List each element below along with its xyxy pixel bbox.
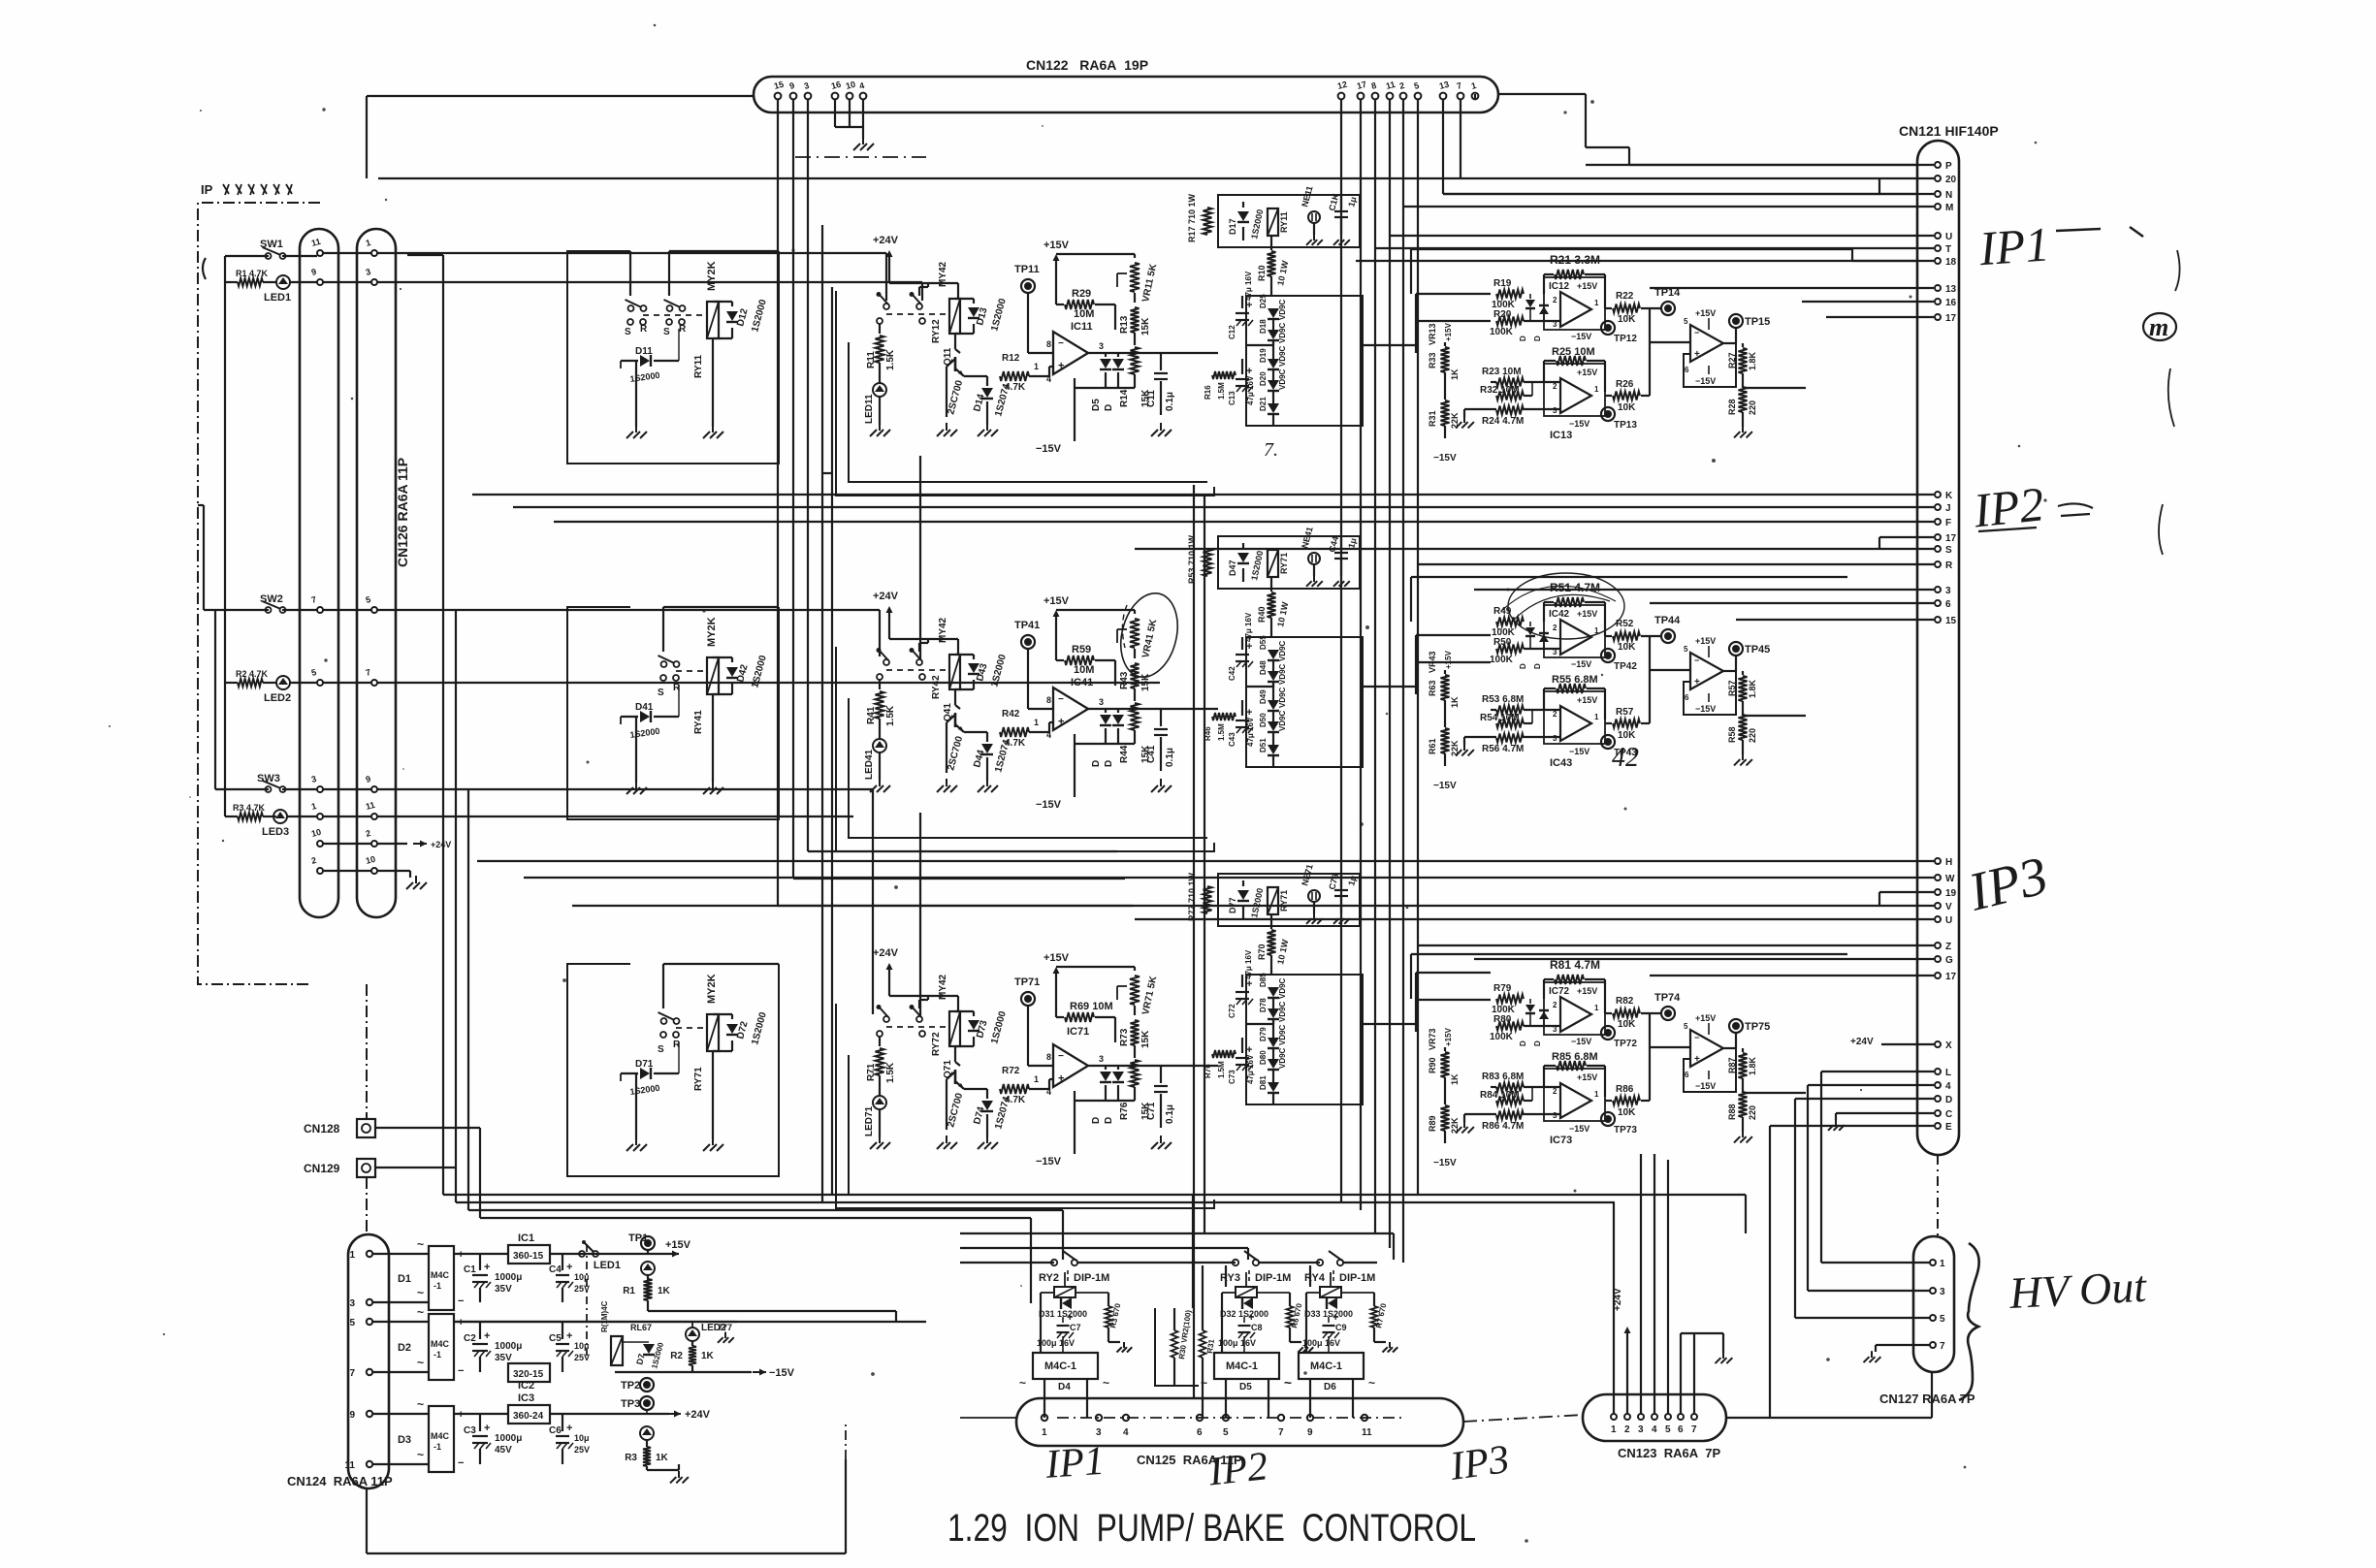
wire CN12x dashdot [366,984,368,1234]
wire E down [1769,1126,1771,1418]
svg-text:25V: 25V [574,1445,590,1455]
diode D13 ch1 [955,297,1009,334]
svg-text:18: 18 [1945,257,1957,268]
svg-text:R33: R33 [1428,352,1437,368]
svg-text:S: S [663,327,670,337]
ground LED ch3 [870,1136,890,1149]
pin 17 CN121 [1879,533,1957,544]
svg-text:R53 710 1W: R53 710 1W [1187,534,1197,584]
svg-text:−: − [1694,328,1699,337]
svg-text:+: + [566,1262,572,1273]
svg-text:Q71: Q71 [943,1060,953,1078]
capacitor C9 [1302,1312,1347,1353]
wire long v1242 [1204,496,1205,1233]
wire CN126 row [323,870,407,872]
svg-text:T: T [1945,244,1951,255]
wire bm h1232 [443,1195,1746,1233]
svg-text:M4C-1: M4C-1 [1044,1360,1076,1372]
svg-text:+15V: +15V [1444,1027,1453,1046]
wire filter out ch1 [1363,294,1491,353]
net -15V ch2 [1036,797,1075,811]
pin N CN121 [1443,190,1952,201]
svg-text:D49: D49 [1259,689,1268,704]
resistor R29 ch1 [1056,288,1115,330]
svg-text:1.5K: 1.5K [885,1062,896,1083]
svg-text:R1: R1 [623,1286,635,1296]
svg-text:RY12: RY12 [931,319,942,343]
wire contacts up ch3 [663,964,779,1008]
svg-text:CN123 RA6A 7P: CN123 RA6A 7P [1618,1446,1721,1460]
net +24V ch1 [873,235,958,299]
svg-text:~: ~ [1368,1376,1375,1390]
wire bus pin3 [807,99,809,851]
switch ps [579,1240,598,1257]
wire row1 to ch1 [407,253,886,301]
svg-text:D20: D20 [1259,371,1268,386]
svg-text:100K: 100K [1490,327,1514,337]
svg-text:+: + [1058,361,1064,372]
neon NE11 ch1 [1300,185,1320,235]
handwriting scribble IC42 [1501,573,1624,639]
diode D20 ch1 [1259,370,1279,391]
resistor R25 ch1 [1544,346,1605,392]
svg-text:D: D [1519,1040,1527,1046]
svg-text:VD9C: VD9C [1278,322,1287,343]
label RY12 ch1 [931,319,942,343]
resistor R71 ch3 [866,1037,896,1083]
net +15V 2nd ch3 [1695,1013,1716,1035]
resistor R88 ch3 [1727,1092,1757,1132]
svg-text:R23 10M: R23 10M [1482,367,1522,377]
wire long v848 [821,225,823,1202]
svg-text:R41: R41 [866,706,877,724]
svg-text:2: 2 [1553,1087,1557,1096]
svg-text:S: S [625,327,631,337]
pin U CN121 [1390,232,1952,242]
svg-text:D: D [1533,1040,1542,1046]
svg-text:C43: C43 [1228,732,1236,747]
wire mid vertical ch1 [1650,308,1690,396]
pin 3/9 CN126 [310,774,377,792]
resistor R6 670 [1287,1302,1304,1342]
filter box top ch3 [1218,874,1360,926]
connector CN122 RA6A 19P [754,77,1498,112]
transistor Q11 ch1 [943,334,965,417]
svg-text:+: + [484,1423,490,1434]
svg-text:R82: R82 [1616,996,1634,1007]
svg-text:R: R [1945,560,1953,571]
svg-text:M4C: M4C [431,1431,450,1441]
capacitor C44 ch2 [1327,535,1358,576]
wire CN123 out right [1726,1373,1932,1418]
svg-text:R21 3.3M: R21 3.3M [1550,253,1600,267]
wire fb 2nd ch1 [1684,343,1736,387]
svg-text:CN128: CN128 [304,1122,340,1136]
svg-text:1: 1 [1611,1424,1617,1435]
resistor R1 4.7K [225,269,276,286]
ground Q71 ch3 [937,1136,957,1149]
net +15V ch2 [1044,595,1070,660]
wire contacts up ch2 [663,607,779,652]
label CN121 [1899,123,1999,139]
diode D14 ch1 [964,376,1012,425]
svg-text:R89: R89 [1428,1115,1437,1132]
diode D25 ch1 [1259,294,1279,319]
wire relay box outline ch3 [567,964,779,1176]
capacitor C3 [464,1414,522,1464]
svg-text:~: ~ [417,1448,424,1461]
svg-text:10K: 10K [1618,1107,1636,1118]
LED1 [264,275,317,304]
wire CN124 loop [367,1422,846,1553]
relay RY4 contact [1314,1251,1343,1265]
wire CN127 p5 [1795,1099,1930,1318]
resistor R81 ch3 [1544,958,1605,1013]
testpoint TP15 ch1 [1723,314,1770,343]
svg-text:220: 220 [1748,1105,1757,1120]
connector CN128 [304,1119,480,1139]
wire out to pin ch3 [1649,993,1651,1013]
svg-text:1000μ: 1000μ [495,1433,522,1444]
diode D5 ch1 [1091,353,1111,411]
svg-text:VD9C: VD9C [1278,345,1287,367]
svg-text:−15V: −15V [1695,376,1716,386]
wire contacts up ch1 [630,251,779,296]
wire block top ch1 [1411,249,1917,294]
wire bus CN122 right 5 [1402,99,1404,1263]
handwriting 7 note [1264,439,1278,461]
ground Q41 ch2 [937,779,957,792]
svg-text:2: 2 [1553,624,1557,632]
regulator IC1 [508,1232,550,1264]
resistor R77 ch3 [1187,872,1212,921]
filter box2 ch3 [1246,975,1363,1104]
resistor R59 ch2 [1056,644,1115,686]
handwriting IP2 [1971,476,2093,537]
handwriting IP2 bottom [1205,1444,1269,1494]
svg-text:D25: D25 [1259,294,1268,308]
svg-text:CN122 RA6A 19P: CN122 RA6A 19P [1026,57,1148,73]
svg-text:0.1μ: 0.1μ [1165,1104,1175,1124]
testpoint TP3 [621,1396,654,1410]
ground LED ch1 [870,423,890,436]
svg-text:D: D [1091,760,1102,767]
pin 15 CN122 [773,80,785,100]
diode D5 ch2 [1091,709,1111,767]
svg-text:VD9C: VD9C [1278,687,1287,708]
svg-text:+: + [1694,677,1700,688]
svg-text:5: 5 [349,1318,355,1328]
svg-text:M4C: M4C [431,1270,450,1280]
pin 7 CN127 [1930,1341,1945,1352]
filter box2 ch2 [1246,637,1363,767]
svg-text:R70: R70 [1257,944,1267,960]
net +24V ch3 [873,947,958,1011]
pin 9 CN124 [349,1410,372,1421]
connector CN121 HIF140P [1917,141,1959,1155]
diode D47 ch2 [1228,543,1265,582]
svg-text:M4C-1: M4C-1 [1310,1360,1342,1372]
wire CN123 bracket [1681,1333,1723,1414]
diode D5 ch3 [1091,1066,1111,1124]
pin J CN121 [513,503,1951,514]
pin 10 CN122 [845,80,856,100]
pin 3 CN122 [803,80,811,99]
transistor Q41 ch2 [943,689,965,773]
svg-text:1: 1 [1034,718,1039,727]
capacitor C78 ch3 [1327,873,1358,913]
testpoint TP71 ch3 [1014,976,1053,1066]
wire bus CN122 right 2 [1360,99,1362,1210]
wire C ground [1835,1113,1837,1120]
svg-text:D48: D48 [1259,660,1268,675]
label MY2K ch1 [706,261,718,291]
svg-text:2: 2 [1553,382,1557,391]
testpoint TP14 ch1 [1654,287,1681,315]
pin 17 CN122 [1356,80,1367,100]
svg-text:R11: R11 [866,351,877,368]
svg-text:IP1: IP1 [1976,216,2051,275]
svg-text:1: 1 [1034,362,1039,371]
capacitor C8 [1218,1312,1263,1353]
svg-text:−15V: −15V [1433,453,1457,464]
wire CN126 row [323,609,407,611]
module M4C-1 RY3 [1201,1353,1291,1392]
varistor R30 VR2 [1155,1308,1199,1386]
relay RY71 ch3 [1268,887,1289,914]
wire out to pin ch2 [1649,616,1651,636]
svg-text:TP15: TP15 [1745,316,1770,328]
svg-text:IC71: IC71 [1067,1026,1089,1038]
svg-text:TP12: TP12 [1614,334,1637,344]
net -15V ps [615,1367,795,1379]
wire relay stem ch2 [636,685,713,783]
wire row6 to ch3 [407,816,853,817]
svg-text:4: 4 [1123,1427,1129,1438]
svg-text:+15V: +15V [1695,636,1716,646]
svg-text:3: 3 [1096,1427,1102,1438]
svg-text:+: + [1058,717,1064,728]
resistor R76 ch3 [1119,1045,1151,1120]
wire bus CN122 right 6 [1417,99,1419,1195]
diode D79 ch3 [1259,1020,1279,1048]
svg-text:TP11: TP11 [1014,264,1040,275]
transistor Q71 ch3 [943,1046,965,1130]
label IC12 ch1 [1549,281,1597,292]
wire bm h1272 [960,1233,1394,1260]
ground D44 ch2 [978,779,998,792]
svg-text:M: M [1945,203,1953,213]
resistor R42 ch2 [1000,709,1049,749]
svg-text:U: U [1945,915,1952,926]
svg-text:17: 17 [1945,313,1957,324]
ground Q11 ch1 [937,423,957,436]
svg-text:D5: D5 [1091,399,1102,411]
svg-text:7.: 7. [1264,439,1278,461]
testpoint TP2 [621,1378,654,1392]
svg-text:+: + [1694,1054,1700,1065]
wire ps row3 bot [373,1448,429,1464]
diode D78 ch3 [1259,998,1279,1019]
svg-text:−: − [1058,1051,1064,1062]
svg-text:42: 42 [1612,743,1639,773]
pin 11 CN124 [344,1460,372,1471]
resistor R76 ch3 [1204,1050,1236,1078]
svg-text:7: 7 [1278,1427,1284,1438]
svg-text:5: 5 [1940,1314,1945,1325]
svg-text:47μ 16V: 47μ 16V [1246,1054,1255,1084]
svg-text:+: + [1694,349,1700,360]
wire ps row3 rails [454,1413,508,1415]
svg-text:TP75: TP75 [1745,1021,1770,1033]
resistor R16 ch1 [1204,371,1236,400]
label RY4 DIP-1M [1304,1270,1375,1284]
resistor R55 ch2 [1544,674,1605,720]
svg-text:U: U [1945,232,1952,242]
svg-text:~: ~ [1285,1376,1292,1390]
svg-text:3: 3 [1099,1054,1104,1064]
svg-text:VD9C: VD9C [1278,663,1287,685]
op-amp IC73 tri ch3 [1553,1083,1599,1120]
wire ps row1 out [454,1253,679,1255]
LED LED71 ch3 [864,1075,886,1137]
resistor R73 ch3 [1119,1019,1151,1048]
op-amp 2nd stage ch1 [1684,317,1723,374]
svg-text:~: ~ [1103,1376,1109,1390]
resistor R86 ch3 [1605,1084,1650,1118]
svg-text:X: X [1945,1040,1952,1051]
resistor R87 ch3 [1727,1048,1757,1093]
handwriting 42 [1612,743,1639,773]
svg-text:6: 6 [1945,599,1951,610]
pin 1 CN122 [1470,80,1478,99]
label MY42 ch1 [938,261,948,287]
svg-text:0.1μ: 0.1μ [1165,748,1175,767]
diode D72 ch3 [713,1010,769,1051]
svg-text:1: 1 [1042,1427,1047,1438]
svg-text:IC73: IC73 [1550,1135,1572,1146]
pin 5 CN124 [349,1318,372,1328]
label CN126 RA6A 11P [395,458,410,567]
resistor R12 ch1 [1000,353,1049,393]
svg-text:1000μ: 1000μ [495,1341,522,1352]
wire gnd row [407,871,410,878]
svg-text:C1: C1 [464,1264,476,1275]
resistor R83 ch3 [1482,1072,1560,1092]
svg-text:TP2: TP2 [621,1380,640,1392]
ground r5 ch2 [1456,744,1474,756]
svg-text:3: 3 [1638,1424,1644,1435]
svg-text:35V: 35V [495,1353,512,1363]
wire ps row2 rails [454,1321,737,1323]
pin 1/11 CN126 [310,800,377,819]
diode D42 ch2 [713,654,769,694]
pin 16 CN121 [1802,298,1957,308]
svg-text:-1: -1 [433,1350,441,1360]
wire long v495 [479,1139,481,1218]
svg-text:−15V: −15V [1036,1156,1062,1168]
wire ps row3 top [373,1397,429,1414]
diode D49 ch2 [1259,683,1279,711]
svg-text:D: D [1945,1095,1952,1105]
ground CN126 row [406,876,427,889]
svg-text:F: F [1945,518,1951,528]
neon NE71 ch3 [1300,863,1320,913]
svg-text:−15V: −15V [1571,332,1591,341]
svg-text:DIP-1M: DIP-1M [1255,1272,1291,1284]
net +15V ch1 [1044,240,1070,304]
svg-text:1.5K: 1.5K [885,705,896,726]
wire contact dash ch1 [643,314,707,316]
pin G CN121 [1474,955,1953,966]
ground relay a ch2 [626,781,647,794]
svg-text:−: − [1694,656,1699,665]
diode D18 ch1 [1259,319,1279,340]
regulator IC2 [508,1363,550,1392]
svg-text:7: 7 [1691,1424,1697,1435]
resistor R52 ch2 [1605,619,1661,653]
capacitor C72 ch3 [1228,949,1253,1018]
wire CN122 pins 16-10-4 join [835,99,863,139]
ground relay a ch3 [626,1137,647,1151]
diode D80 ch3 [1259,1049,1279,1070]
op-amp IC11 ch1 [1046,332,1104,384]
ground relay b ch1 [703,425,723,438]
svg-text:R76: R76 [1204,1064,1212,1078]
wire RY3 to pins [1226,1379,1268,1418]
pin 5/7 CN126 [310,667,377,686]
svg-text:D: D [1519,336,1527,341]
svg-text:C9: C9 [1335,1323,1347,1332]
svg-text:RY72: RY72 [931,1032,942,1056]
testpoint TP12 ch1 [1571,321,1637,344]
net -15V ch1 [1036,441,1075,455]
relay RY71 ch2 [1268,550,1289,577]
pin 6 CN121 [1650,599,1951,610]
svg-text:LED3: LED3 [262,826,289,838]
svg-text:D: D [1104,760,1114,767]
resistor R13 ch1 [1119,306,1151,336]
svg-text:−15V: −15V [1036,443,1062,455]
ground LED2 ps [718,1323,734,1343]
pin K CN121 [472,491,1953,501]
svg-text:9: 9 [1307,1427,1313,1438]
wire bm verticals [1193,1195,1310,1308]
svg-text:+24V: +24V [873,947,899,959]
svg-text:RY42: RY42 [931,675,942,699]
svg-text:R57: R57 [1727,680,1737,696]
svg-text:−15V: −15V [1433,781,1457,791]
svg-text:CN126 RA6A 11P: CN126 RA6A 11P [395,458,410,567]
svg-text:220: 220 [1748,728,1757,743]
wire opamp minus in ch2 [1049,722,1053,732]
svg-text:2: 2 [1553,296,1557,304]
pin 3 CN121 [1474,586,1951,596]
svg-text:1: 1 [1594,299,1599,307]
svg-text:+24V: +24V [431,840,451,849]
diode D6 ch3 [1104,1066,1124,1124]
pin 6 CN125 [1197,1415,1203,1438]
ground rg ch3 [1734,1131,1752,1143]
diode D51 ch2 [1259,733,1279,767]
svg-text:+: + [566,1423,572,1434]
svg-text:−15V: −15V [1569,419,1589,429]
resistor R2 ps [670,1341,714,1372]
wire block top ch3 [1411,954,1847,999]
svg-text:VR13: VR13 [1428,323,1437,345]
svg-text:R42: R42 [1002,709,1020,720]
svg-text:R3: R3 [625,1453,637,1463]
